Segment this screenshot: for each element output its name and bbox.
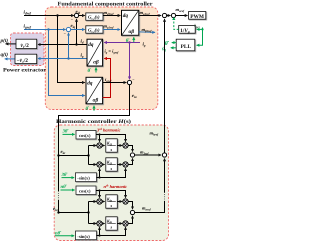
- wire i_qref horizontal into summer S2: [24, 28, 66, 30]
- svg-text:p(t): p(t): [0, 38, 8, 44]
- svg-text:αβ: αβ: [93, 60, 99, 66]
- wire cosN distribution to M5 M6: [96, 189, 126, 197]
- multiplier M7: [97, 221, 102, 226]
- svg-text:Power extractor: Power extractor: [3, 68, 47, 74]
- wire q(t) output: [5, 58, 15, 60]
- svg-text:Fundamental component controll: Fundamental component controller: [58, 1, 154, 7]
- svg-text:v̂1/2: v̂1/2: [20, 43, 29, 49]
- wire S1 to Gci box: [79, 15, 85, 17]
- wire into S6 from below: [164, 159, 166, 193]
- multiplier M5: [97, 199, 102, 204]
- svg-text:s: s: [109, 147, 112, 152]
- wire M3 to K2: [102, 164, 105, 166]
- region: power extractor container: [11, 33, 45, 66]
- svg-text:PLL: PLL: [181, 44, 192, 50]
- dq-to-ab block B3 modulation transform: [122, 10, 139, 35]
- wire v1 hat PLL output: [171, 47, 176, 49]
- wire ntheta arrow into sinN: [55, 235, 74, 237]
- wire i_dref branch down into dq-block B2: [58, 16, 85, 83]
- wire m_q1ref from Gci to B3: [103, 29, 120, 31]
- svg-text:eiα: eiα: [61, 150, 66, 155]
- wire e_ia from S3 down and left into harmonic box rail: [59, 85, 130, 192]
- summer S8: [130, 210, 134, 214]
- multiplier M2: [123, 143, 128, 148]
- wire i_d feedback from B1 to v1/2 box: [38, 43, 87, 45]
- wire S4 to S5: [167, 15, 171, 17]
- wire i_g purple into B1: [104, 41, 140, 43]
- wire M5 to K3: [102, 201, 105, 203]
- svg-text:dq: dq: [88, 42, 94, 48]
- wire theta hat PLL output: [172, 42, 176, 44]
- svg-text:Harmonic controller H(s): Harmonic controller H(s): [56, 119, 131, 125]
- summer S7: [130, 153, 134, 157]
- rail dots continuation: [58, 193, 59, 199]
- box K2 integrator Ki3/s: [106, 158, 118, 171]
- wire m_href up from S6 to S4: [164, 19, 166, 153]
- svg-text:PWM: PWM: [190, 14, 204, 20]
- box cos(x) third harmonic: [76, 131, 96, 140]
- svg-text:s: s: [109, 203, 112, 208]
- wire S7 to S6 m_3ref: [135, 154, 162, 156]
- svg-text:iqref: iqref: [24, 23, 32, 29]
- svg-text:eiα: eiα: [132, 94, 137, 99]
- multiplier M3: [97, 162, 102, 167]
- wire 3theta arrow into sin3: [62, 177, 75, 179]
- wire i_qref branch down into dq-block B2: [49, 30, 85, 96]
- wire p(t) output: [6, 43, 16, 45]
- wire v_pcc green feed: [197, 28, 204, 46]
- svg-text:αβ: αβ: [93, 98, 99, 104]
- wire M6 down to S8: [128, 202, 132, 210]
- wire m_d1ref from Gci to B3: [103, 15, 120, 17]
- svg-text:mαref: mαref: [176, 7, 186, 13]
- theta hat label under B1: [88, 68, 97, 74]
- wire sinN distribution to M7 M8: [97, 227, 126, 236]
- wire m_a1ref from B3 to summer S4: [139, 15, 161, 17]
- box v1/2 gain: [16, 39, 37, 49]
- wire e_ia bracket third harmonic: [57, 146, 96, 165]
- summer S5: [171, 13, 175, 17]
- theta hat label under B3: [126, 37, 134, 44]
- wire i_g down into summer S3: [129, 43, 131, 80]
- summer S2: [64, 27, 71, 35]
- wire sin3 distribution to M3 M4: [97, 168, 126, 178]
- wire M1 to K1: [102, 145, 105, 147]
- svg-text:-sin(x): -sin(x): [77, 234, 90, 239]
- svg-text:Gc,i(s): Gc,i(s): [88, 15, 100, 21]
- wire K4 to M8: [117, 223, 122, 225]
- multiplier M4: [123, 162, 128, 167]
- theta hat label under B2: [86, 106, 95, 112]
- svg-text:θ̂: θ̂: [165, 41, 170, 47]
- wire 3theta arrow into cos3: [63, 133, 75, 135]
- svg-text:s: s: [109, 225, 112, 230]
- wire i_q up into summer S2: [68, 33, 70, 59]
- wire i_aref from B2 to summer S3: [103, 82, 127, 84]
- wire i_d up into summer S1: [76, 19, 78, 45]
- wire e_ia bracket nth harmonic: [57, 202, 96, 224]
- wire S8 up to S6 m_nref: [135, 201, 165, 213]
- box PLL: [176, 39, 195, 51]
- wire green dashed 1/Vp to S5: [174, 17, 179, 29]
- wire cos3 distribution to M1 M2: [96, 133, 126, 141]
- svg-text:eid: eid: [76, 10, 81, 15]
- wire M2 down to S7: [128, 146, 132, 152]
- wire m_b1ref stub: [139, 31, 155, 34]
- box K3 integrator Kin/s: [106, 195, 118, 208]
- wire S5 to PWM: [176, 15, 188, 17]
- svg-text:αβ: αβ: [129, 29, 135, 35]
- region: fundamental component controller container: [45, 7, 158, 110]
- svg-text:s: s: [109, 166, 112, 171]
- wire i_q feedback from B1 to -v1/2 box: [38, 57, 87, 59]
- wire K1 to M2: [117, 145, 122, 147]
- svg-text:dq: dq: [123, 13, 129, 19]
- box PWM: [189, 12, 206, 20]
- dq-to-ab block B2 reference transform: [86, 77, 103, 104]
- m_nref dots continuation: [164, 194, 165, 200]
- box -sin(x) third harmonic: [76, 173, 97, 182]
- box Gci(s) q-axis controller: [86, 26, 103, 34]
- multiplier M8: [123, 221, 128, 226]
- svg-text:eiq: eiq: [71, 24, 76, 29]
- wire K2 to M4: [117, 164, 122, 166]
- svg-text:-sin(x): -sin(x): [77, 176, 90, 181]
- box cos(x) nth harmonic: [76, 186, 96, 195]
- svg-text:eiα: eiα: [53, 207, 58, 212]
- svg-text:cos(x): cos(x): [79, 133, 91, 138]
- wire i_dref horizontal into summer S1: [24, 14, 74, 16]
- box Gci(s) d-axis controller: [86, 13, 103, 21]
- svg-text:dq: dq: [87, 80, 93, 86]
- box 1/Vp: [179, 26, 196, 34]
- box -sin(x) nth harmonic: [76, 231, 97, 240]
- svg-text:cos(x): cos(x): [79, 189, 91, 194]
- box K1 integrator Ki3/s: [106, 139, 118, 152]
- multiplier M6: [123, 199, 128, 204]
- svg-text:idref: idref: [24, 10, 32, 16]
- wire ntheta arrow into cosN: [61, 189, 75, 191]
- multiplier M1: [97, 143, 102, 148]
- wire red beta loop from B2 to B1: [103, 59, 111, 98]
- wire M8 up to S8: [128, 216, 132, 224]
- dq-to-ab block B1 current transform: [87, 39, 103, 66]
- rail lower segment: [58, 200, 60, 213]
- wire M7 to K4: [102, 223, 105, 225]
- summer S6: [162, 153, 166, 157]
- summer S1: [71, 13, 79, 21]
- region: harmonic controller container: [54, 125, 168, 241]
- svg-text:q(t): q(t): [1, 52, 9, 58]
- wire S2 to Gci box: [71, 29, 85, 31]
- summer S4: [162, 13, 166, 17]
- svg-text:Gc,i(s): Gc,i(s): [88, 27, 100, 33]
- wire M4 up to S7: [128, 158, 132, 164]
- summer S3: [127, 77, 135, 84]
- box -v1/2 gain: [15, 54, 37, 64]
- box K4 integrator Kin/s: [106, 217, 118, 230]
- wire K3 to M6: [117, 201, 122, 203]
